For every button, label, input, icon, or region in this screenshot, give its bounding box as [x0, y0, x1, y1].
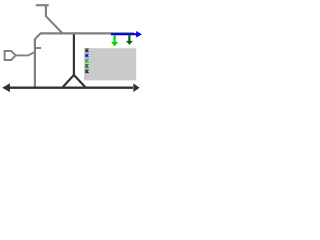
- antenna terminal T bar: [36, 4, 49, 6]
- axis line: [7, 87, 133, 89]
- legend glyph row 1 (black): [86, 49, 89, 52]
- axis right arrowhead: [133, 83, 139, 92]
- legend glyph row 2 (blue): [86, 54, 89, 57]
- axis left arrowhead: [2, 83, 10, 92]
- legend glyph row 5 (black): [86, 70, 89, 73]
- legend panel: [84, 48, 136, 80]
- dark green arrowhead: [126, 41, 133, 45]
- dark green vector arrow: [128, 35, 130, 41]
- antenna stem mitre: [44, 5, 47, 8]
- main horizontal wire: [40, 32, 134, 34]
- net label tag: [5, 51, 16, 60]
- antenna stem wire: [45, 6, 47, 17]
- left vertical wire: [34, 39, 36, 88]
- corner bevel wire: [35, 33, 41, 39]
- stub tick: [35, 47, 41, 49]
- blue vector arrow: [111, 33, 137, 35]
- tag lead wire: [16, 52, 34, 55]
- pivot triangle: [62, 75, 86, 88]
- blue arrowhead: [136, 31, 142, 38]
- green vector arrow: [113, 35, 115, 42]
- pivot vertical line: [73, 35, 75, 76]
- legend glyph row 4 (dark green): [86, 65, 89, 68]
- green arrowhead: [111, 42, 118, 46]
- diagonal wire (switch lever): [46, 16, 63, 33]
- legend glyph row 3 (green): [86, 60, 89, 63]
